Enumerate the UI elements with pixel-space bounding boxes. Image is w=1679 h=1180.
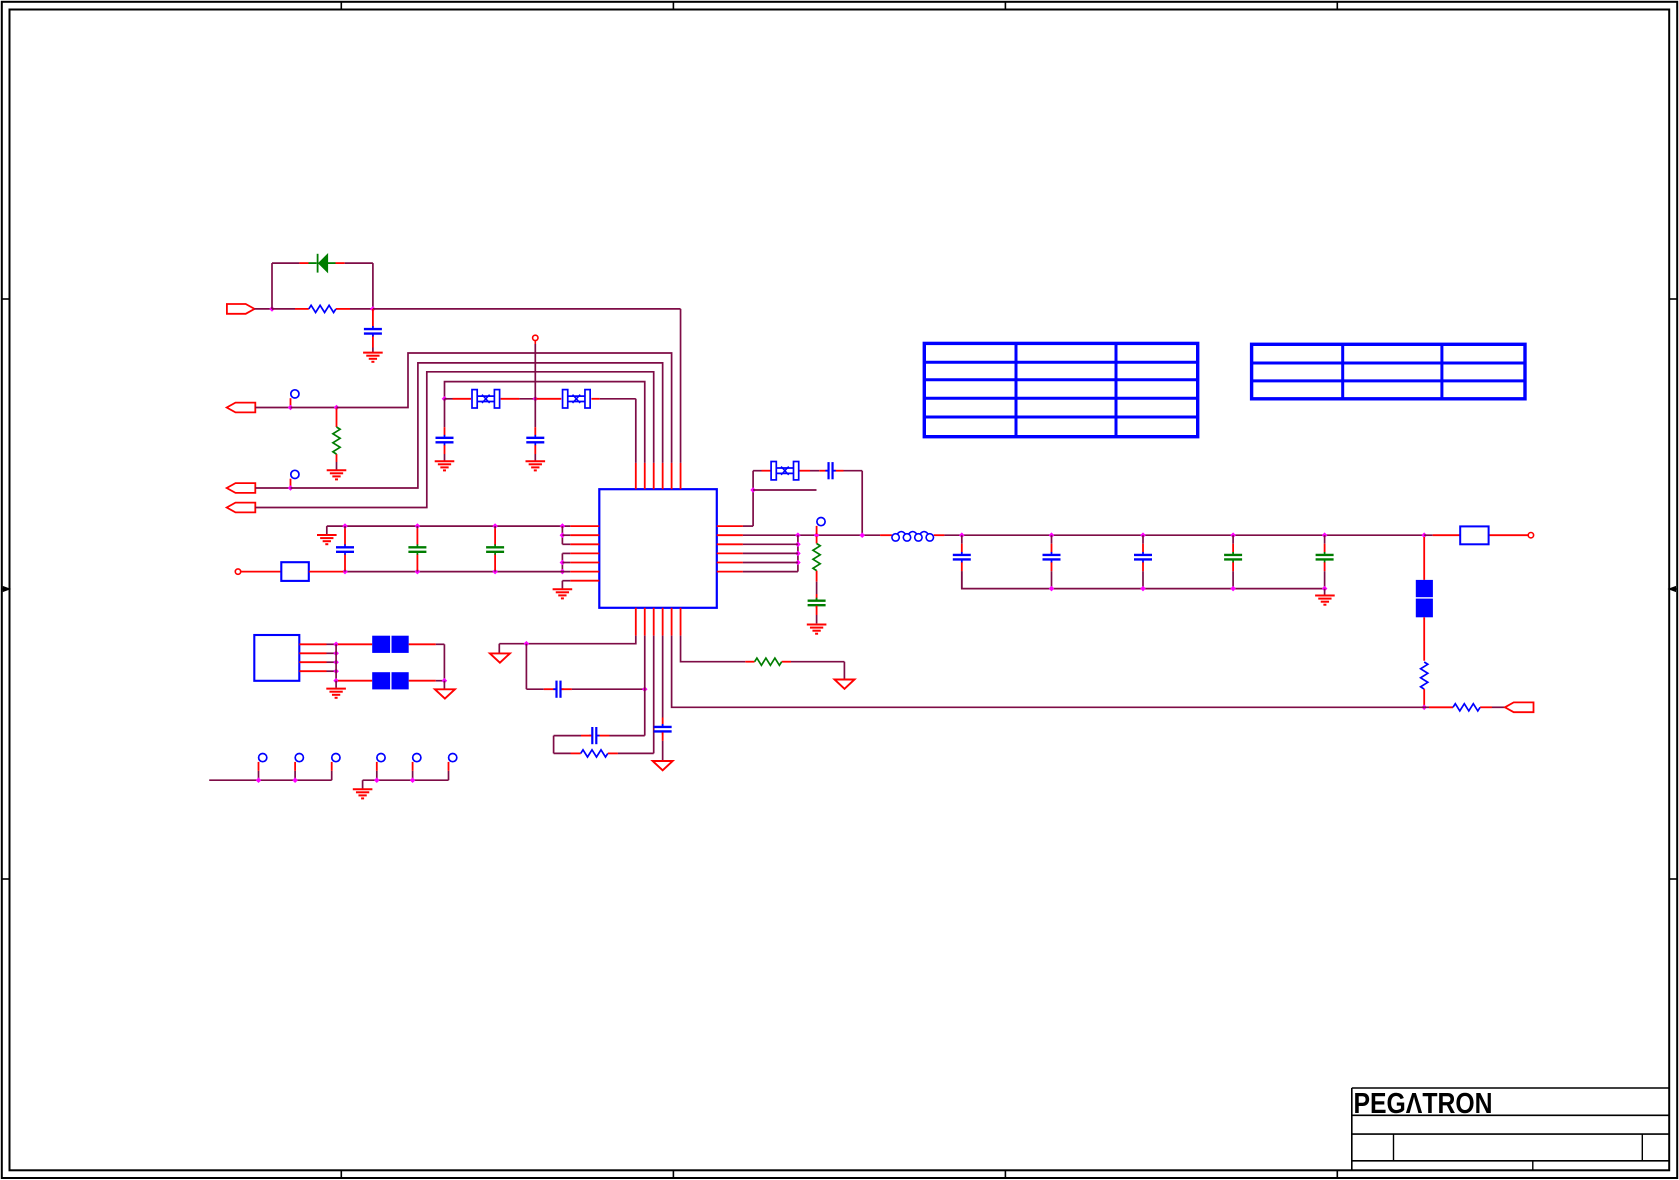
node junction at (345,571.6) [342, 569, 348, 575]
resistor R1 (blue) [309, 305, 336, 312]
resistor R2 (green, vertical) [333, 427, 340, 454]
wire P3 net to nest [291, 363, 663, 488]
node junction at (336.1,680.7) [333, 678, 339, 684]
node junction at (1424.2,707.3) [1421, 705, 1427, 711]
ground (triangle) pin1 net [490, 653, 510, 662]
test point TP x=376.8 [377, 754, 385, 781]
wire pin3 vertical [653, 636, 655, 754]
test point TP x=412.6 [413, 754, 421, 781]
test point TP x=448.5 (wire end) [449, 754, 457, 781]
wire row7 to ground [562, 581, 570, 589]
node junction at (644.75,689.2) [642, 686, 648, 692]
terminal (red open circle) left [235, 569, 240, 574]
node junction bottom rail x=1143 [1140, 586, 1146, 592]
ground below C2 [435, 461, 455, 470]
wire row3 right [743, 543, 798, 545]
rail left end drop to ground [326, 526, 328, 535]
test point TP2 [291, 470, 300, 487]
IC U1 right pin 3 [717, 543, 743, 545]
title block line under logo [1352, 1114, 1669, 1116]
fuse F1 leads [1424, 534, 1528, 536]
border arrow left [1, 587, 10, 592]
node junction at (562.4,526) [560, 523, 566, 529]
port connector P4 (left-pointing) [227, 503, 256, 513]
node junction bottom rail x=1233.1 [1230, 586, 1236, 592]
capacitor C1 leads [372, 309, 374, 353]
border tick right y=879 [1669, 878, 1678, 880]
ground row7 [553, 589, 573, 598]
terminal (red open circle) right [1528, 533, 1533, 538]
EMI filter Z2 (filled blue pair) [372, 672, 409, 689]
node junction at (535.3,399) [533, 396, 539, 402]
IC U1 top pin 2 [644, 463, 646, 489]
EMI filter Z2 left lead [338, 680, 372, 682]
capacitor C8 (green) [808, 598, 826, 608]
capacitor C8 bottom lead [816, 606, 818, 624]
wire Z1 right down [443, 644, 445, 680]
capacitor C3 (blue) [526, 435, 544, 445]
table 2 (3 rows x 3 cols) [1252, 344, 1525, 399]
wire IC right pin1 to crystal column [743, 471, 753, 526]
title block top line [1352, 1087, 1669, 1089]
node junction at (417.4,571.6) [415, 569, 421, 575]
border tick top x=341.3 [340, 1, 342, 9]
ground at rail left end [317, 535, 337, 544]
node junction at (1051.5,535.2) [1049, 532, 1055, 538]
node junction at (961.8,535.2) [959, 532, 965, 538]
wire pin4 vertical [662, 636, 664, 726]
IC U1 left pin 5 [570, 562, 599, 564]
wire P2 net to nest [337, 353, 672, 463]
ground (triangle) pin4 net [653, 761, 673, 770]
title block divider v1 [1393, 1134, 1395, 1161]
IC U1 top pin 5 [671, 463, 673, 489]
component U2 body (blue box) [254, 635, 299, 681]
node junction at (562.4,562.5) [560, 560, 566, 566]
node junction at (495.1,571.6) [492, 569, 498, 575]
border tick right y=299 [1669, 298, 1678, 300]
node junction at (797.9,562.5) [795, 560, 801, 566]
wire C7 down to row2 rail [861, 471, 863, 536]
crystal Y3 leads [753, 470, 819, 472]
border tick bottom x=341.3 [340, 1170, 342, 1179]
crystal Y2 leads [537, 398, 636, 400]
wire row4 left [562, 552, 570, 554]
IC U1 top pin 1 [635, 463, 637, 489]
ground below C1 [363, 353, 383, 362]
node junction at (336.1,653.3) [333, 651, 339, 657]
ferrite FB2 (filled blue, stacked pair) [1416, 580, 1433, 617]
capacitor C11 leads [1142, 535, 1144, 588]
capacitor C15 (blue, series) [589, 727, 599, 744]
diode D1 (green) [309, 254, 336, 273]
node junction at (526.4,643.7) [524, 641, 530, 647]
border tick left y=299 [1, 298, 9, 300]
border tick bottom x=1337.3 [1336, 1170, 1338, 1179]
U2 pin 2 [299, 652, 336, 654]
IC U1 bottom pin 4 [662, 608, 664, 636]
resistor R2 leads [336, 409, 338, 471]
U2 pin 3 [299, 661, 336, 663]
wire IC right pin2 rail [743, 534, 880, 536]
capacitor C12 (green) [1224, 552, 1242, 562]
IC U1 right pin 6 [717, 571, 743, 573]
crystal Y3 [771, 462, 799, 480]
resistor R7 (green) [755, 658, 782, 665]
ground (triangle) Z net [435, 689, 455, 698]
IC U1 left pin 7 [570, 580, 599, 582]
capacitor C15 left lead [554, 735, 592, 737]
filter FB1 body (blue box) [281, 562, 309, 581]
capacitor C10 (blue) [1043, 552, 1061, 562]
node junction at (816.6,535.2) [814, 532, 820, 538]
capacitor C7 leads [819, 470, 862, 472]
node junction at (295.1,780.2) [292, 777, 298, 783]
cap bank bottom rail [962, 571, 1325, 588]
node junction at (862.2,535.2) [859, 532, 865, 538]
inductor L1 leads [880, 534, 944, 536]
IC U1 left pin 1 [570, 525, 599, 527]
wire row5 left [562, 562, 570, 564]
IC U1 bottom pin 3 [653, 608, 655, 636]
wire pin1 node down to C14 [526, 644, 555, 690]
node junction at (444.5,399) [442, 396, 448, 402]
capacitor C2 (blue) [436, 435, 454, 445]
capacitor C5 (green) [408, 544, 426, 554]
vertical tie rows2-6 right [797, 535, 799, 571]
bottom rail drop to ground [1324, 589, 1326, 595]
wire down right of diode loop [372, 263, 374, 309]
capacitor C14 right lead [562, 688, 645, 690]
inductor L1 (blue coil) [892, 532, 934, 542]
crystal Y1 [472, 390, 500, 408]
IC U1 right pin 1 [717, 525, 743, 527]
resistor R5 (blue) [1453, 704, 1480, 711]
wire long to IC pin column [373, 308, 681, 310]
IC U1 right pin 5 [717, 562, 743, 564]
EMI filter Z2 right lead [409, 680, 445, 682]
IC U1 top pin 4 [662, 463, 664, 489]
wire Y2 right to IC top pin 1 [635, 399, 637, 463]
capacitor C6 leads [494, 526, 496, 572]
wire U2 tie to ground [335, 681, 337, 688]
wire diode to right corner [336, 262, 373, 264]
test point row 1 wire [209, 779, 332, 781]
table 1 (5 rows x 3 cols) [924, 343, 1197, 436]
ground below C3 [526, 461, 546, 470]
ferrite divider top lead [1423, 537, 1425, 580]
node junction at (495.1,526) [492, 523, 498, 529]
IC U1 left pin 2 [570, 534, 599, 536]
vertical tie U2 pins [335, 644, 337, 680]
EMI filter Z1 (filled blue pair) [372, 636, 409, 653]
node junction at (272,309) [269, 306, 275, 312]
node junction bottom rail x=1324.6 [1322, 586, 1328, 592]
fuse F1 body (blue box) [1460, 526, 1488, 544]
U2 pin 1 [299, 643, 336, 645]
capacitor C13 (green) [1316, 552, 1334, 562]
test point TP1 [291, 390, 300, 407]
wire pin6 net [681, 636, 746, 662]
IC U1 bottom pin 1 [635, 608, 637, 636]
wire P4 net to nest [255, 372, 653, 508]
U2 pin 4 [299, 670, 336, 672]
test point TP x=295.1 [295, 754, 303, 781]
capacitor C4 (blue) [336, 544, 354, 554]
wire P1 to node [255, 308, 273, 310]
IC U1 bottom pin 5 [671, 608, 673, 636]
resistor R4 (blue, vertical) [1421, 662, 1428, 689]
border tick top x=1005.4 [1004, 1, 1006, 9]
output rail after L1 [944, 534, 1424, 536]
capacitor C4 leads [344, 526, 346, 572]
wire crystal-left node to nest [445, 382, 645, 463]
wire TP3 down to crystal node [534, 344, 536, 399]
port connector P2 (left-pointing) [227, 403, 256, 413]
ground row2 [353, 789, 373, 798]
border tick left y=879 [1, 878, 9, 880]
node junction at (345,526) [342, 523, 348, 529]
node junction at (1324.6,535.2) [1322, 532, 1328, 538]
node junction at (562.4,535.2) [560, 532, 566, 538]
ground below U2 tie [326, 689, 346, 698]
IC U1 top pin 6 [680, 463, 682, 489]
wire up-left of diode loop [271, 263, 273, 309]
filter FB1 left lead [241, 571, 281, 573]
capacitor C14 (blue, series) [553, 681, 563, 698]
vertical tie rows1-3 left [561, 526, 563, 544]
node junction at (336.1,671.2) [333, 668, 339, 674]
crystal Y2 [563, 390, 591, 408]
capacitor C6 (green) [486, 544, 504, 554]
test point row 2 wire [363, 779, 449, 781]
IC U1 left pin 4 [570, 552, 599, 554]
wire pin1 net left [499, 636, 636, 644]
node junction bottom rail x=1051.5 [1049, 586, 1055, 592]
border tick top x=1337.3 [1336, 1, 1338, 9]
capacitor C1 (blue) [364, 326, 382, 336]
filter FB1 right lead [309, 571, 344, 573]
capacitor C12 leads [1232, 535, 1234, 588]
node junction at (797.9,544.3) [795, 542, 801, 548]
stub wire right at y490 [753, 489, 816, 491]
border tick bottom x=1005.4 [1004, 1170, 1006, 1179]
test point TP x=331.7 (wire end) [332, 754, 340, 781]
node junction at (753.1,490) [750, 487, 756, 493]
node junction at (1143,535.2) [1140, 532, 1146, 538]
resistor R5 leads [1424, 706, 1505, 708]
port connector P3 (left-pointing) [227, 483, 256, 493]
title block divider v3 [1532, 1161, 1534, 1171]
lower rail to IC left pin 6 [345, 571, 570, 573]
wire drop to ground triangle [498, 644, 500, 654]
wire row5 right [743, 562, 798, 564]
capacitor C9 leads [961, 535, 963, 588]
capacitor C11 (blue) [1134, 552, 1152, 562]
node junction at (797.9,553.4) [795, 551, 801, 557]
wire down to IC top pin 6 [680, 309, 682, 463]
resistor R7 leads [745, 661, 844, 663]
node junction at (336.1,644.3) [333, 642, 339, 648]
test point TP3 (red, open circle) [533, 335, 538, 344]
capacitor C3 leads [534, 399, 536, 461]
node junction at (444.4,680.7) [442, 678, 448, 684]
ground below R2 [327, 470, 347, 479]
node junction at (336.1,662.2) [333, 659, 339, 665]
wire pin2 vertical [644, 636, 646, 736]
node junction at (797.9,535.2) [795, 532, 801, 538]
capacitor C16 (blue) [654, 724, 672, 734]
wire top segment to diode [272, 262, 309, 264]
power rail to IC left pin 1 [327, 525, 570, 527]
wire bend down to R6 [554, 736, 581, 754]
capacitor C2 leads [444, 399, 446, 461]
wire to resistor node [291, 407, 337, 409]
crystal Y1 leads [445, 398, 536, 400]
node junction at (562.4,571.6) [560, 569, 566, 575]
border tick top x=673.4 [672, 1, 674, 9]
capacitor C5 leads [416, 526, 418, 572]
resistor R3 leads [816, 536, 818, 600]
resistor R6 right lead [608, 752, 654, 754]
IC U1 right pin 2 [717, 534, 743, 536]
IC U1 left pin 3 [570, 543, 599, 545]
IC U1 left pin 6 [570, 571, 599, 573]
title block line 3 [1352, 1160, 1669, 1162]
resistor R6 (blue) [581, 750, 608, 757]
port connector P1 (input, right-pointing) [227, 304, 255, 314]
title block divider v2 [1641, 1134, 1643, 1161]
IC U1 bottom pin 6 [680, 608, 682, 636]
row2 left drop to ground [362, 780, 364, 788]
wire drop to ground triangle right [843, 662, 845, 679]
EMI filter Z1 left lead [338, 643, 372, 645]
node junction at (336.5,407.5) [334, 405, 340, 411]
IC U1 body [599, 489, 717, 608]
node junction at (412.6,780.2) [410, 777, 416, 783]
resistor R1 leads [272, 308, 373, 310]
capacitor C13 leads [1324, 535, 1326, 588]
node junction at (258.5,780.2) [256, 777, 262, 783]
node junction at (376.8,780.2) [374, 777, 380, 783]
test point TP4 [817, 518, 826, 535]
title block line 2 [1352, 1133, 1669, 1135]
node junction at (373,309) [370, 306, 376, 312]
node junction at (1424.2,535.2) [1421, 532, 1427, 538]
capacitor C7 (blue, series) [825, 462, 835, 479]
node junction at (1233.1,535.2) [1230, 532, 1236, 538]
wire row2 left [562, 534, 570, 536]
wire row6 right [743, 571, 798, 573]
IC U1 top pin 3 [653, 463, 655, 489]
node junction at (290.5,488) [288, 485, 294, 491]
resistor R4 bottom lead [1423, 689, 1425, 706]
node junction at (417.4,526) [415, 523, 421, 529]
title block left edge [1351, 1088, 1353, 1170]
wire row4 right [743, 552, 798, 554]
wire P3 to right [255, 487, 290, 489]
PEGATRON logo [1354, 1088, 1493, 1120]
ground below C8 [807, 625, 827, 634]
EMI filter Z1 right lead [409, 643, 445, 645]
border tick bottom x=673.4 [672, 1170, 674, 1179]
test point TP x=258.5 [259, 754, 267, 781]
vertical tie rows4-6 left [561, 553, 563, 571]
wire row3 left [562, 543, 570, 545]
ground (triangle) pin6 net [835, 680, 855, 689]
port connector P5 (left-pointing) [1505, 702, 1534, 712]
wire P2 to right [255, 407, 290, 409]
capacitor C10 leads [1051, 535, 1053, 588]
resistor R3 (green, vertical) [813, 544, 820, 571]
ground at bottom rail end [1315, 596, 1335, 605]
capacitor C16 bottom lead [662, 732, 664, 760]
IC U1 right pin 4 [717, 552, 743, 554]
IC U1 bottom pin 2 [644, 608, 646, 636]
long wire from IC bottom pin5 [672, 636, 1425, 708]
wire to ground triangle [443, 681, 445, 689]
capacitor C15 right lead [597, 735, 644, 737]
capacitor C9 (blue) [953, 552, 971, 562]
border arrow right [1669, 587, 1678, 592]
node junction at (290.5,407.5) [288, 405, 294, 411]
ferrite FB2 bottom lead [1423, 617, 1425, 660]
